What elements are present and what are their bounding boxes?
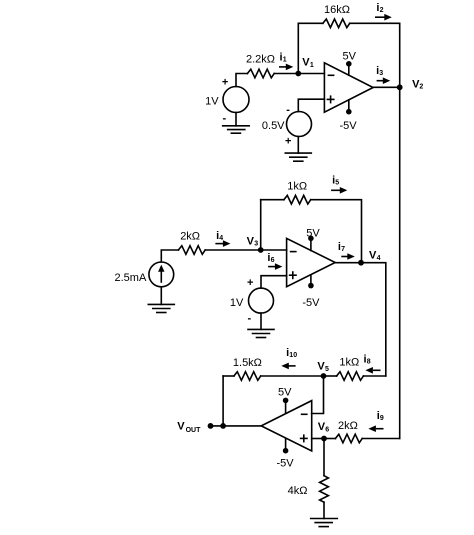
svg-text:6: 6 (325, 427, 329, 434)
op-amp U3 minus sign (302, 413, 307, 415)
label +5V U1 (343, 51, 357, 63)
op-amp U3 plus sign (301, 435, 307, 441)
wire: 0.5V source to ground stem (297, 137, 299, 154)
current label i7 with arrow (338, 241, 355, 260)
label 1.5kOhm (233, 357, 262, 369)
op-amp U2 -5V supply stub and dot (308, 275, 314, 289)
svg-text:4kΩ: 4kΩ (288, 485, 308, 497)
ground under 4k resistor (311, 519, 338, 527)
ground under 0.5V source (285, 153, 311, 161)
wire: feedback top left segment (298, 22, 323, 24)
resistor R 2.2kOhm (247, 69, 274, 78)
wire: V6 to 2k resistor stage 3 (324, 438, 335, 440)
label 2.5mA current source (115, 272, 147, 284)
op-amp U3 -5V supply stub and dot (283, 439, 289, 454)
svg-text:2.2kΩ: 2.2kΩ (246, 53, 275, 65)
svg-text:7: 7 (341, 246, 345, 253)
label 1V middle source (230, 297, 244, 309)
op-amp U1 +5V supply stub and dot (346, 61, 352, 75)
svg-text:5: 5 (325, 366, 329, 373)
label node V1 (302, 57, 314, 69)
current label i9 with arrow pointing left (368, 410, 384, 432)
wire: 2.2k resistor to V1 to op-amp U1 inverting input (274, 73, 324, 75)
wire: 4k resistor to ground stem (323, 502, 325, 518)
svg-text:OUT: OUT (186, 427, 202, 434)
label node V6 (318, 421, 330, 433)
label node V2 (412, 78, 423, 90)
svg-text:5: 5 (335, 180, 339, 187)
wire: current source to ground stem (160, 287, 162, 305)
label 4kOhm (288, 485, 308, 497)
node feedback junction dot on output wire (220, 423, 226, 429)
node V2 dot (397, 84, 403, 90)
voltage source 1V top (223, 87, 249, 113)
minus sign of middle 1V source (248, 313, 252, 325)
op-amp U3 triangle pointing left (261, 401, 312, 451)
current source 2.5mA (149, 262, 174, 287)
resistor R 1.5kOhm feedback stage 3 (234, 372, 261, 381)
minus sign of 0.5V source (286, 104, 290, 116)
wire: feedback left vertical down to output (222, 376, 224, 426)
resistor R 2kOhm stage 3 (335, 434, 362, 443)
svg-text:1V: 1V (205, 96, 219, 108)
svg-text:1: 1 (283, 57, 287, 64)
ground under 1V source (223, 126, 250, 133)
svg-text:-5V: -5V (340, 120, 358, 132)
op-amp U2 plus sign (290, 272, 296, 278)
node V6 dot (321, 436, 327, 442)
op-amp U1 -5V supply stub and dot (346, 100, 352, 115)
svg-text:1kΩ: 1kΩ (287, 181, 307, 193)
svg-text:-5V: -5V (302, 297, 320, 309)
wire: stage2 feedback right segment down to V4 (311, 200, 362, 263)
op-amp U3 +5V supply stub and dot (283, 398, 289, 413)
wire: 1V source to ground stem (235, 113, 237, 126)
svg-text:5V: 5V (278, 386, 292, 398)
node V4 dot (358, 260, 364, 266)
svg-text:3: 3 (254, 241, 258, 248)
svg-text:4: 4 (377, 255, 381, 262)
op-amp U2 +5V supply stub and dot (308, 236, 314, 251)
label -5V U1 (340, 120, 358, 132)
resistor R 1kOhm input stage 3 (337, 372, 364, 381)
wire: feedback top right segment (350, 22, 400, 24)
svg-text:-5V: -5V (277, 457, 295, 469)
plus sign of 0.5V source (285, 136, 291, 148)
current label i10 with arrow pointing left (281, 347, 297, 369)
svg-text:+: + (247, 277, 253, 289)
svg-text:9: 9 (380, 415, 384, 422)
current label i2 with arrow (375, 2, 392, 21)
label VOUT (177, 421, 201, 434)
wire: right vertical bus from feedback down through V2 to 2k resistor (399, 23, 401, 438)
resistor R 1kOhm feedback stage 2 (284, 195, 311, 204)
wire: V6 down to 4k resistor (323, 439, 325, 476)
voltage source 1V middle (249, 288, 274, 313)
label node V5 (317, 361, 329, 373)
label 2.2kOhm (246, 53, 275, 65)
voltage source 0.5V (287, 112, 312, 137)
ground under current source (148, 304, 174, 312)
wire: V5 to 1k resistor stage 3 (324, 375, 337, 377)
svg-text:1kΩ: 1kΩ (339, 357, 359, 369)
node V5 dot (321, 373, 327, 379)
wire: 2k resistor to V3 to U2 inverting input (205, 249, 286, 251)
svg-text:2kΩ: 2kΩ (338, 420, 358, 432)
wire: feedback junction to 1.5k resistor (223, 375, 234, 377)
wire: V1 up to feedback (297, 23, 299, 73)
wire: 2k resistor to right vertical bus (362, 438, 400, 440)
resistor R 2kOhm input stage 2 (178, 246, 205, 255)
wire: 1.5k resistor to V5 (261, 375, 324, 377)
label 1V top source (205, 96, 219, 108)
current label i6 with arrow (267, 252, 282, 270)
label 1kOhm feedback stage 2 (287, 181, 307, 193)
svg-text:1.5kΩ: 1.5kΩ (233, 357, 262, 369)
svg-text:V: V (177, 421, 185, 433)
minus sign of 1V top source (223, 113, 227, 125)
wire: stage2 feedback left segment (261, 199, 284, 201)
svg-text:10: 10 (289, 352, 297, 359)
svg-text:2: 2 (419, 84, 423, 91)
svg-text:+: + (222, 77, 228, 89)
svg-text:3: 3 (379, 70, 383, 77)
svg-text:+: + (285, 136, 291, 148)
wire: U2 noninverting input to 1V source (261, 276, 287, 289)
wire: U1 output to V2 (373, 86, 400, 88)
wire: 1k resistor to V4 drop line (363, 375, 385, 377)
op-amp U2 minus sign (291, 251, 296, 253)
op-amp U1 triangle (324, 63, 373, 112)
wire: current source to 2k resistor (161, 250, 178, 262)
wire: V3 up to stage2 feedback (260, 200, 262, 250)
resistor R 4kOhm vertical (320, 476, 329, 503)
current label i4 with arrow (215, 230, 230, 247)
op-amp U1 minus sign (328, 74, 333, 76)
current label i8 with arrow pointing left (364, 354, 381, 374)
wire: U2 output to V4 and over to right drop (335, 263, 386, 376)
plus sign of 1V top source (222, 77, 228, 89)
node V3 dot (258, 247, 264, 253)
resistor R 16kOhm feedback (323, 19, 350, 28)
svg-text:0.5V: 0.5V (262, 120, 285, 132)
wire: U1 noninverting input to 0.5V source (298, 99, 324, 111)
label +5V U3 (278, 386, 292, 398)
label node V3 (247, 235, 259, 247)
label 1kOhm stage 3 (339, 357, 359, 369)
svg-text:2: 2 (380, 7, 384, 14)
svg-text:-: - (286, 104, 290, 116)
svg-text:4: 4 (219, 235, 223, 242)
label 2kOhm stage 3 (338, 420, 358, 432)
label -5V U3 (277, 457, 295, 469)
wire: U3 output to VOUT (211, 425, 262, 427)
label 16kOhm (324, 4, 350, 16)
svg-text:5V: 5V (306, 228, 320, 240)
op-amp U1 plus sign (327, 96, 333, 102)
svg-text:8: 8 (367, 359, 371, 366)
current label i5 with arrow (331, 175, 347, 194)
svg-text:2.5mA: 2.5mA (115, 272, 147, 284)
svg-text:-: - (248, 313, 252, 325)
wire: middle 1V source to ground stem (260, 313, 262, 329)
label +5V U2 (306, 228, 320, 240)
svg-text:1: 1 (310, 62, 314, 69)
wire: V5 down to U3 inverting input (312, 376, 324, 414)
op-amp U2 triangle (287, 238, 336, 286)
svg-text:-: - (223, 113, 227, 125)
node V1 dot (295, 71, 301, 77)
label 2kOhm stage 2 (180, 231, 200, 243)
label node V4 (369, 250, 381, 262)
svg-text:1V: 1V (230, 297, 244, 309)
svg-text:6: 6 (271, 257, 275, 264)
svg-text:16kΩ: 16kΩ (324, 4, 350, 16)
label -5V U2 (302, 297, 320, 309)
wire: 1V source top to 2.2k resistor (236, 74, 247, 87)
node VOUT dot (208, 423, 214, 429)
current label i3 with arrow (376, 65, 390, 84)
plus sign of middle 1V source (247, 277, 253, 289)
current label i1 with arrow (279, 52, 293, 71)
wire: U3 noninverting input to V6 (312, 438, 324, 440)
svg-text:5V: 5V (343, 51, 357, 63)
label 0.5V source (262, 120, 285, 132)
ground under middle 1V source (248, 329, 274, 337)
svg-text:2kΩ: 2kΩ (180, 231, 200, 243)
